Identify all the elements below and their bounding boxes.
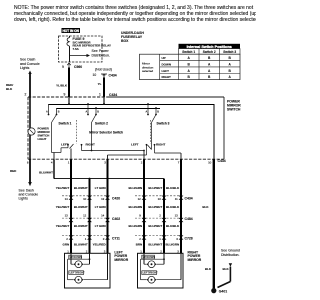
svg-text:down, left, right). Refer to t: down, left, right). Refer to the table b…	[14, 17, 256, 23]
svg-text:G401: G401	[219, 289, 227, 293]
svg-text:Switch 2: Switch 2	[203, 50, 216, 54]
svg-text:LIGHT: LIGHT	[38, 137, 47, 141]
switch 1	[46, 104, 72, 146]
svg-text:Lights: Lights	[19, 197, 29, 201]
svg-text:RED: RED	[10, 169, 17, 173]
wire YL to switch pin 1	[98, 78, 118, 98]
svg-text:YL/BLK: YL/BLK	[56, 84, 68, 88]
svg-text:YEL/WHT: YEL/WHT	[56, 186, 70, 190]
svg-text:BLU/WHT: BLU/WHT	[74, 205, 88, 209]
svg-text:BLU/WHT: BLU/WHT	[74, 186, 88, 190]
svg-text:BLK: BLK	[202, 205, 209, 209]
switch 3	[146, 103, 170, 149]
svg-text:LEFT: LEFT	[131, 143, 139, 147]
svg-text:Switch 1: Switch 1	[182, 50, 195, 54]
svg-text:(Not Used): (Not Used)	[95, 68, 112, 72]
left mirror up/down wire	[70, 160, 72, 254]
internal switch positions table	[140, 44, 241, 80]
svg-text:UP: UP	[162, 56, 166, 60]
selector pole 2	[108, 143, 182, 160]
fuse 9	[67, 36, 111, 62]
svg-text:BLU/GRN: BLU/GRN	[166, 243, 180, 247]
right mirror up/down wire	[143, 160, 145, 254]
svg-text:YL: YL	[98, 82, 102, 86]
svg-text:B: B	[97, 110, 99, 114]
svg-text:LEFT: LEFT	[162, 69, 170, 73]
svg-text:GRN: GRN	[63, 243, 70, 247]
svg-text:BRN: BRN	[136, 243, 143, 247]
svg-text:C434: C434	[109, 74, 117, 78]
svg-text:C434: C434	[109, 93, 117, 97]
svg-text:RIGHT: RIGHT	[156, 143, 166, 147]
hot in on label	[62, 28, 81, 33]
svg-text:B: B	[58, 110, 60, 114]
see dash and console lights (top left)	[20, 58, 40, 75]
svg-text:BLU/WHT: BLU/WHT	[148, 205, 162, 209]
svg-text:1: 1	[99, 93, 101, 97]
svg-text:BLU/BLK: BLU/BLK	[166, 224, 180, 228]
ground wire BLK	[213, 159, 215, 288]
svg-text:SWITCH: SWITCH	[227, 108, 241, 112]
in-line connectors C711 / C728	[62, 235, 110, 237]
bottom pin numbers	[27, 160, 212, 164]
svg-text:14: 14	[65, 197, 69, 201]
svg-text:LT GRN: LT GRN	[95, 224, 106, 228]
svg-text:A: A	[146, 110, 148, 114]
left mirror left/right wire	[107, 160, 109, 254]
wire colour labels	[56, 224, 180, 228]
ground G401	[211, 288, 227, 293]
bus B	[57, 108, 161, 110]
svg-text:BOX: BOX	[121, 39, 129, 43]
wire colour labels	[56, 186, 180, 190]
not used stub C434	[93, 68, 117, 78]
svg-text:HOT IN ON: HOT IN ON	[62, 29, 79, 33]
svg-text:LEFT/RIGHT: LEFT/RIGHT	[143, 271, 159, 275]
svg-text:13: 13	[101, 197, 105, 201]
svg-text:BLU/BLK: BLU/BLK	[166, 186, 180, 190]
svg-text:C420: C420	[112, 196, 120, 200]
svg-text:Distribution.: Distribution.	[92, 53, 111, 57]
RIGHT power mirror box	[138, 253, 184, 288]
svg-text:BLU/WHT: BLU/WHT	[148, 243, 162, 247]
wire dash lights out	[10, 159, 53, 200]
svg-text:9: 9	[64, 93, 66, 97]
svg-text:LT GRN: LT GRN	[95, 205, 106, 209]
under-dash fuse/relay box (dashed)	[59, 36, 103, 62]
svg-text:selected: selected	[142, 69, 154, 73]
svg-text:BLU/GRN: BLU/GRN	[129, 186, 143, 190]
svg-text:7.5A: 7.5A	[73, 47, 80, 51]
in-line connectors C420 / C434	[62, 195, 110, 197]
up/down motor (right)	[143, 253, 145, 264]
left/right motor (left)	[68, 258, 90, 260]
svg-text:2: 2	[25, 93, 27, 97]
svg-text:Switch 3: Switch 3	[157, 122, 170, 126]
svg-text:DOWN: DOWN	[162, 63, 172, 67]
note text	[14, 5, 260, 23]
svg-text:Switch 2: Switch 2	[95, 122, 108, 126]
svg-text:C402: C402	[112, 217, 120, 221]
svg-text:12: 12	[83, 213, 87, 217]
svg-text:11: 11	[175, 197, 178, 201]
switch 2	[86, 103, 109, 150]
wire pin1 to bus A	[103, 97, 105, 105]
svg-text:C434: C434	[185, 196, 193, 200]
in-line connectors C402 / C484	[62, 217, 110, 219]
svg-text:BLU/WHT: BLU/WHT	[39, 171, 53, 175]
svg-text:YEL/WHT: YEL/WHT	[56, 224, 70, 228]
svg-text:A: A	[86, 110, 88, 114]
wire YL/BLK fuse to switch	[56, 68, 69, 98]
svg-text:MIRROR: MIRROR	[114, 258, 128, 262]
svg-text:LT GRN: LT GRN	[95, 186, 106, 190]
svg-text:10: 10	[93, 73, 97, 77]
svg-text:B: B	[157, 110, 159, 114]
svg-text:BLU/WHT: BLU/WHT	[74, 224, 88, 228]
svg-text:C728: C728	[185, 236, 193, 240]
svg-text:C484: C484	[185, 217, 193, 221]
svg-text:BLU/GRN: BLU/GRN	[129, 205, 143, 209]
svg-text:14: 14	[101, 213, 105, 217]
label under-dash fuse/relay box	[121, 31, 144, 43]
svg-text:BLK: BLK	[205, 267, 212, 271]
left/right motor (right)	[141, 258, 165, 260]
svg-text:Distribution.: Distribution.	[221, 253, 240, 257]
svg-text:Switch 3: Switch 3	[223, 50, 236, 54]
bus A	[49, 104, 215, 106]
svg-text:C434: C434	[218, 159, 226, 163]
svg-text:A: A	[46, 110, 48, 114]
wire colour labels	[56, 205, 180, 209]
svg-text:12: 12	[138, 197, 142, 201]
svg-text:RIGHT: RIGHT	[162, 75, 172, 79]
right mirror left/right wire	[180, 160, 182, 254]
svg-text:9: 9	[62, 65, 64, 69]
svg-text:BLU/WHT: BLU/WHT	[74, 243, 88, 247]
wire bus A to pin 10	[213, 104, 215, 159]
POWER MIRROR SWITCH box	[28, 97, 241, 159]
svg-text:Switch 1: Switch 1	[59, 122, 72, 126]
svg-text:C711: C711	[112, 236, 120, 240]
svg-text:BLU/WHT: BLU/WHT	[148, 186, 162, 190]
svg-text:13: 13	[175, 213, 179, 217]
svg-text:RIGHT: RIGHT	[86, 143, 96, 147]
svg-text:C960: C960	[74, 65, 82, 69]
svg-text:BLK: BLK	[6, 87, 13, 91]
power mirror switch light	[28, 97, 51, 159]
svg-text:UP/DOWN: UP/DOWN	[70, 255, 83, 259]
svg-text:10: 10	[208, 160, 212, 164]
svg-text:10: 10	[83, 197, 87, 201]
see power distribution arrow	[69, 49, 110, 57]
wire RED/BLK dash lights to switch pin 2	[6, 74, 30, 97]
LEFT power mirror box	[65, 253, 111, 288]
svg-text:MIRROR: MIRROR	[188, 258, 202, 262]
svg-text:Mirror Selector Switch: Mirror Selector Switch	[89, 131, 123, 135]
common pin 4 wire and distribution to both mirrors	[54, 160, 164, 254]
selector pole 1	[52, 143, 145, 160]
svg-text:UP/DOWN: UP/DOWN	[143, 255, 156, 259]
connector C960	[62, 63, 82, 69]
svg-text:13: 13	[158, 197, 162, 201]
svg-text:BLK: BLK	[223, 267, 230, 271]
see ground distribution	[202, 205, 240, 288]
svg-text:YEL/WHT: YEL/WHT	[56, 205, 70, 209]
svg-text:BLU/BLK: BLU/BLK	[166, 205, 180, 209]
svg-text:YEL/RED: YEL/RED	[93, 243, 107, 247]
up/down motor (left)	[70, 253, 72, 264]
svg-text:LEFT/RIGHT: LEFT/RIGHT	[70, 271, 86, 275]
svg-text:13: 13	[65, 213, 69, 217]
svg-text:BLU/GRN: BLU/GRN	[129, 224, 143, 228]
selector mech links (dashed)	[77, 120, 151, 144]
wire colour labels	[63, 243, 180, 247]
svg-text:BLU/WHT: BLU/WHT	[148, 224, 162, 228]
wire pin9 to bus A	[68, 97, 70, 105]
svg-text:Lights: Lights	[20, 66, 30, 70]
